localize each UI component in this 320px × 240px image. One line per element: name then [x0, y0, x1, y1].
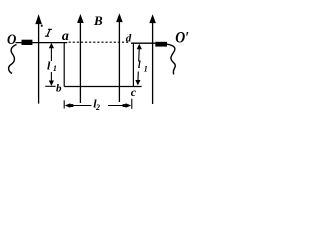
dimension label l2: [93, 97, 100, 113]
wire W4 (long straight wire, current arrow up): [150, 15, 156, 104]
loop bottom wire b-c: [64, 86, 141, 88]
svg-text:d: d: [126, 32, 132, 44]
svg-text:c: c: [131, 85, 137, 99]
svg-text:1: 1: [144, 64, 148, 73]
wire W2 (long straight wire, current arrow up): [78, 15, 84, 103]
dimension l2: right tick: [131, 99, 133, 109]
wire W1 (long straight wire, current arrow up): [36, 15, 42, 103]
resistor R2 (solid block): [155, 42, 167, 47]
svg-text:2: 2: [95, 103, 100, 112]
dimension l1 left: arrowed line: [49, 43, 54, 86]
svg-text:O: O: [7, 32, 16, 48]
current label I: [45, 29, 52, 36]
dimension label l1 right: [138, 60, 148, 73]
svg-text:b: b: [56, 83, 62, 95]
loop left wire a-b: [63, 43, 65, 87]
dimension label l1 left: [47, 59, 57, 73]
resistor R1 (solid block): [22, 40, 33, 45]
svg-text:a: a: [62, 29, 69, 44]
lead squiggle at O': [167, 44, 175, 74]
lead squiggle at O: [9, 45, 17, 74]
dimension l1 left: bottom tick: [45, 85, 55, 87]
svg-text:1: 1: [53, 64, 57, 73]
dimension l1 right: arrowed line: [135, 44, 142, 86]
svg-text:O′: O′: [175, 30, 189, 47]
ink speck near W1 arrowhead: [41, 25, 43, 27]
wire O to W1: [16, 42, 39, 44]
wire a: solid rail segment: [39, 42, 68, 44]
dashed rail line: [69, 41, 129, 43]
wire W3 (long straight wire, current arrow up): [117, 14, 123, 102]
wire d to O': [131, 42, 155, 44]
loop right wire d-c: [132, 43, 134, 86]
dimension l2: left tick: [63, 100, 65, 108]
dimension l2: arrowed line: [65, 103, 132, 108]
svg-text:B: B: [93, 13, 103, 28]
svg-text:l: l: [138, 60, 141, 71]
